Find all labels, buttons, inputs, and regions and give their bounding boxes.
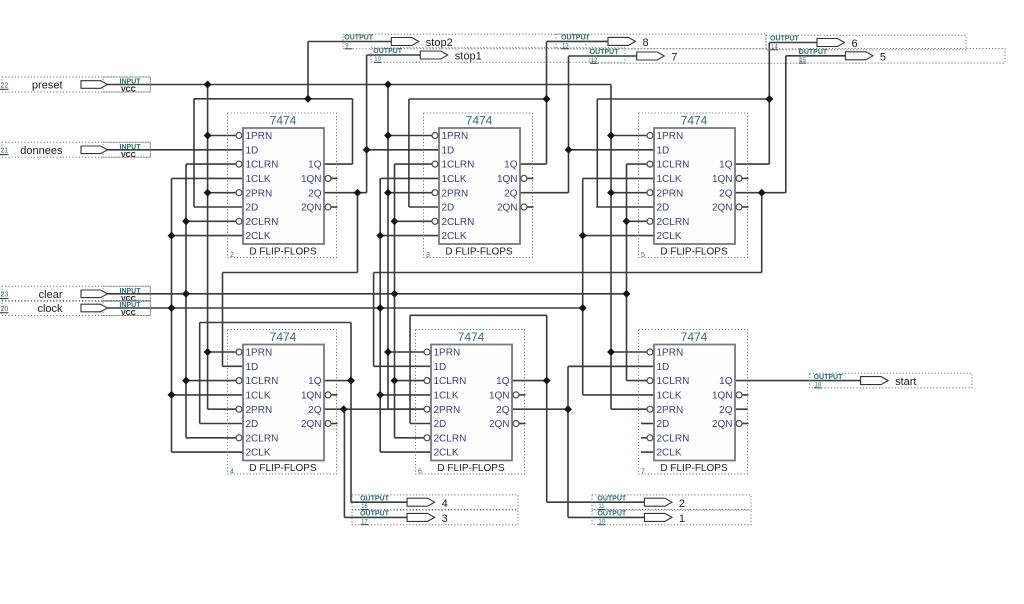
wire 2Q of U2 to 1D of U3 (569, 149, 655, 151)
svg-text:2QN: 2QN (497, 203, 518, 214)
svg-text:INPUT: INPUT (120, 288, 142, 295)
junction preset and U1 column (204, 81, 212, 89)
svg-text:OUTPUT: OUTPUT (561, 35, 591, 42)
wire 2Q stub U6 unconnected (735, 408, 748, 410)
svg-text:D FLIP-FLOPS: D FLIP-FLOPS (249, 247, 317, 258)
chip body U6 (654, 345, 735, 461)
wire stub 2D stub U4 (200, 423, 243, 425)
wire stub 1PRN stub U4 (208, 351, 236, 353)
svg-text:7: 7 (641, 469, 645, 476)
inversion bubble 2QN of U4 (325, 421, 331, 427)
svg-text:2D: 2D (657, 419, 670, 430)
inversion bubble 1CLRN of U3 (647, 161, 653, 167)
input pin symbol donnees (81, 146, 108, 154)
wire output 1 wire (568, 516, 644, 518)
input pin preset inner dotted border (103, 77, 150, 92)
svg-text:1CLRN: 1CLRN (246, 376, 279, 387)
wire stub 1CLRN stub U5 (395, 380, 424, 382)
svg-text:2D: 2D (434, 419, 447, 430)
svg-text:1D: 1D (246, 145, 259, 156)
inversion bubble 1PRN of U2 (432, 133, 438, 139)
svg-text:2CLRN: 2CLRN (657, 433, 690, 444)
stub wire 1QN of U3 (742, 177, 748, 179)
svg-text:2QN: 2QN (489, 419, 510, 430)
wire clock chain left column (171, 178, 173, 452)
junction preset at 1PRN U1 (204, 132, 212, 140)
junction clear at 2CLRN U2 (391, 217, 399, 225)
junction preset at 1PRN U2 (384, 132, 392, 140)
inversion bubble 2QN of U5 (513, 421, 519, 427)
svg-text:2Q: 2Q (308, 405, 322, 416)
wire stub 2CLK stub U4 (172, 451, 244, 453)
chip body U2 (439, 128, 520, 244)
svg-text:2D: 2D (246, 203, 259, 214)
junction 2Q branch U5 (564, 405, 572, 413)
svg-text:OUTPUT: OUTPUT (597, 511, 627, 518)
inversion bubble 1QN of U5 (513, 392, 519, 398)
output pin symbol 2 (644, 498, 672, 506)
inversion bubble 2QN of U6 (736, 421, 742, 427)
wire 2Q drop U3 (761, 193, 763, 273)
svg-text:2Q: 2Q (496, 405, 510, 416)
wire stub 1CLK stub U5 (380, 394, 431, 396)
junction clock and U3 column (579, 304, 587, 312)
svg-text:1PRN: 1PRN (434, 348, 461, 359)
svg-text:2CLRN: 2CLRN (434, 433, 467, 444)
wire stub 2CLRN stub U5 (395, 437, 424, 439)
svg-text:1CLK: 1CLK (657, 391, 682, 402)
svg-text:2D: 2D (657, 203, 670, 214)
svg-text:2: 2 (230, 252, 234, 259)
wire 1Q feedback track U5 (410, 314, 547, 316)
svg-text:D FLIP-FLOPS: D FLIP-FLOPS (249, 463, 317, 474)
svg-text:4: 4 (230, 469, 234, 476)
wire 1Q drop to 2D U1 (193, 99, 195, 207)
wire clock net (108, 307, 583, 309)
junction 2Q branch U1 (354, 189, 362, 197)
svg-text:1QN: 1QN (489, 391, 510, 402)
svg-text:VCC: VCC (121, 310, 136, 317)
wire 2Q riser U3 to output 5 (785, 56, 787, 193)
wire 1Q drop to 2D U4 (199, 323, 201, 424)
junction preset at 1PRN U5 (384, 348, 392, 356)
inversion bubble 2QN of U3 (736, 204, 742, 210)
svg-text:1Q: 1Q (719, 160, 733, 171)
wire 2Q stub U2 (520, 192, 569, 194)
svg-text:7474: 7474 (681, 330, 708, 344)
svg-text:1CLK: 1CLK (246, 391, 271, 402)
wire output 5 wire (786, 55, 846, 57)
stub wire 1QN of U1 (331, 177, 337, 179)
wire stub 1CLRN stub U4 (186, 380, 236, 382)
svg-text:21: 21 (1, 148, 9, 155)
inversion bubble 1PRN of U4 (236, 349, 242, 355)
wire stub 1PRN stub U6 (611, 351, 647, 353)
output pin 8 dotted border (556, 34, 766, 49)
inversion bubble 2PRN of U1 (236, 190, 242, 196)
output pin 7 dotted border (590, 49, 800, 64)
junction output 8 tap on 1Q track U2 (543, 95, 551, 103)
svg-text:D FLIP-FLOPS: D FLIP-FLOPS (660, 463, 728, 474)
wire 2Q riser U1 to stop1 (366, 55, 368, 193)
input pin donnees inner dotted border (103, 142, 150, 157)
svg-text:2CLK: 2CLK (434, 448, 459, 459)
svg-text:INPUT: INPUT (120, 144, 142, 151)
svg-text:2PRN: 2PRN (657, 405, 684, 416)
wire 1Q riser U2 and output 8 tap (546, 41, 548, 164)
svg-text:3: 3 (426, 252, 430, 259)
svg-text:1Q: 1Q (504, 160, 518, 171)
svg-text:7: 7 (671, 52, 677, 64)
svg-text:1Q: 1Q (719, 376, 733, 387)
output pin symbol start (861, 377, 889, 385)
wire 2Q stub U4 (324, 408, 430, 410)
stub wire 1QN of U2 (527, 177, 533, 179)
junction preset at 1PRN U3 (607, 132, 615, 140)
wire stub 1CLK stub U2 (380, 177, 439, 179)
wire clock chain right column (582, 178, 584, 395)
junction 2Q branch U4 (340, 405, 348, 413)
svg-text:5: 5 (641, 252, 645, 259)
wire stub 1CLK stub U3 (583, 177, 654, 179)
output pin symbol 6 (817, 39, 845, 47)
inversion bubble 1CLRN of U2 (432, 161, 438, 167)
svg-text:1PRN: 1PRN (246, 131, 273, 142)
inversion bubble 1CLRN of U1 (236, 161, 242, 167)
wire clear chain middle column (394, 164, 396, 438)
wire stub 2PRN stub U1 (208, 192, 236, 194)
inversion bubble 1PRN of U5 (424, 349, 430, 355)
svg-text:2CLK: 2CLK (246, 231, 271, 242)
inversion bubble 1PRN of U6 (647, 349, 653, 355)
wire 2D stub U6 unconnected (641, 423, 654, 425)
svg-text:OUTPUT: OUTPUT (814, 374, 844, 381)
svg-text:OUTPUT: OUTPUT (373, 48, 403, 55)
inversion bubble 2CLRN of U2 (432, 218, 438, 224)
wire 2CLK stub U6 unconnected (641, 451, 654, 453)
svg-text:stop1: stop1 (455, 51, 482, 63)
svg-text:INPUT: INPUT (120, 79, 142, 86)
svg-text:2PRN: 2PRN (246, 405, 273, 416)
svg-text:1QN: 1QN (712, 174, 733, 185)
chip body U4 (243, 345, 324, 461)
stub wire 2QN of U2 (527, 206, 533, 208)
svg-text:1D: 1D (657, 145, 670, 156)
svg-text:preset: preset (32, 80, 63, 92)
inversion bubble 1QN of U3 (736, 175, 742, 181)
svg-text:1QN: 1QN (301, 391, 322, 402)
svg-text:2PRN: 2PRN (442, 188, 469, 199)
stub wire 2CLRN of U6 unconnected (641, 437, 647, 439)
stub wire 2QN of U5 (519, 423, 525, 425)
wire 1Q stub U4 (324, 380, 351, 382)
svg-text:2: 2 (679, 498, 685, 510)
input pin clock inner dotted border (103, 301, 150, 316)
svg-text:3: 3 (442, 513, 448, 525)
junction preset at 1PRN U6 (607, 348, 615, 356)
junction clear and U1 column (182, 290, 190, 298)
svg-text:6: 6 (418, 469, 422, 476)
svg-text:start: start (895, 376, 916, 388)
svg-text:OUTPUT: OUTPUT (597, 495, 627, 502)
wire stub 1PRN stub U5 (388, 351, 424, 353)
svg-text:1Q: 1Q (496, 376, 510, 387)
svg-text:5: 5 (880, 51, 886, 63)
svg-text:1Q: 1Q (308, 160, 322, 171)
wire stop1 wire (367, 54, 421, 56)
inversion bubble 2PRN of U5 (424, 406, 430, 412)
wire 1Q riser and output 2 drop U5 (546, 315, 548, 502)
svg-text:donnees: donnees (20, 145, 63, 157)
output pin start dotted border (810, 373, 972, 388)
wire stub 2D stub U5 (410, 423, 431, 425)
wire output 6 wire (769, 42, 817, 44)
wire stub 2CLRN stub U1 (186, 220, 236, 222)
svg-text:1: 1 (679, 513, 685, 525)
svg-text:2CLRN: 2CLRN (246, 217, 279, 228)
wire output 2 wire (547, 501, 645, 503)
wire clear net (108, 293, 627, 295)
junction clear at 1CLRN U5 (391, 377, 399, 385)
wire 1Q feedback track U1 (194, 98, 353, 100)
wire clear chain left column (185, 164, 187, 438)
inversion bubble 2QN of U1 (325, 204, 331, 210)
svg-text:1D: 1D (434, 362, 447, 373)
chip body U5 (431, 345, 512, 461)
wire 1Q drop to 2D U3 (596, 99, 598, 207)
svg-text:1CLK: 1CLK (434, 391, 459, 402)
wire stop2 wire (308, 41, 391, 43)
inversion bubble 1QN of U6 (736, 392, 742, 398)
wire 1Q stub U1 (324, 163, 353, 165)
wire 2Q stub U3 (735, 192, 786, 194)
input pin clock dotted border (2, 301, 150, 316)
wire preset chain middle column (387, 85, 389, 410)
svg-text:1CLRN: 1CLRN (246, 160, 279, 171)
junction clock at 2CLK U2 (376, 232, 384, 240)
wire 2Q drop U5 to output 1 (567, 409, 569, 517)
junction clock and U1 column (168, 304, 176, 312)
junction clear at 1CLRN U4 (182, 377, 190, 385)
output pin symbol 8 (608, 37, 636, 45)
junction 1Q branch U4 (347, 377, 355, 385)
inversion bubble 1QN of U1 (325, 175, 331, 181)
inversion bubble 2CLRN of U6 (647, 435, 653, 441)
svg-text:2Q: 2Q (719, 405, 733, 416)
inversion bubble 2PRN of U3 (647, 190, 653, 196)
wire 2Q of U3 track to U5 (374, 272, 762, 274)
wire 1Q feedback track U2 (409, 98, 547, 100)
junction clear and U2 column (391, 290, 399, 298)
wire 2Q of U3 drop to 1D of U5 (373, 273, 375, 367)
wire stub 2PRN stub U4 (208, 408, 236, 410)
svg-text:2Q: 2Q (504, 188, 518, 199)
svg-text:2CLRN: 2CLRN (246, 433, 279, 444)
wire stub 2PRN stub U3 (611, 192, 647, 194)
svg-text:7474: 7474 (270, 114, 297, 128)
svg-text:7474: 7474 (458, 330, 485, 344)
inversion bubble 2QN of U2 (521, 204, 527, 210)
junction clear at 2CLRN U1 (182, 217, 190, 225)
wire 1Q of U6 to start output (735, 380, 861, 382)
input pin preset dotted border (2, 77, 150, 92)
junction clock at 2CLK U3 (579, 232, 587, 240)
7474 D flip-flop chip U1 dotted selection border (228, 113, 337, 258)
wire 2Q riser U5 to 1D of U6 (567, 366, 569, 409)
svg-text:2CLRN: 2CLRN (442, 217, 475, 228)
chip body U1 (243, 128, 324, 244)
svg-text:D FLIP-FLOPS: D FLIP-FLOPS (445, 247, 513, 258)
svg-text:1QN: 1QN (301, 174, 322, 185)
svg-text:1Q: 1Q (308, 376, 322, 387)
svg-text:2D: 2D (246, 419, 259, 430)
svg-text:1CLRN: 1CLRN (442, 160, 475, 171)
junction clock at 2CLK U1 (168, 232, 176, 240)
wire stub 1PRN stub U2 (388, 135, 432, 137)
inversion bubble 1CLRN of U6 (647, 378, 653, 384)
wire stub 2CLRN stub U4 (186, 437, 236, 439)
wire stub 2PRN stub U5 (388, 408, 424, 410)
inversion bubble 2CLRN of U4 (236, 435, 242, 441)
wire stub 1PRN stub U3 (611, 135, 647, 137)
svg-text:D FLIP-FLOPS: D FLIP-FLOPS (660, 247, 728, 258)
wire stub 1D stub U6 (569, 365, 655, 367)
inversion bubble 1PRN of U1 (236, 133, 242, 139)
wire 2Q of U1 drop to 1D of U4 (222, 273, 224, 367)
output pin symbol stop2 (391, 38, 419, 46)
wire 1Q riser U1 (352, 99, 354, 164)
wire stub 2CLRN stub U2 (395, 220, 432, 222)
svg-text:2Q: 2Q (719, 188, 733, 199)
wire stub 2D stub U1 (194, 206, 243, 208)
wire output 7 wire (569, 55, 637, 57)
svg-text:7474: 7474 (270, 330, 297, 344)
wire 1Q stub U3 (735, 163, 769, 165)
wire 1Q drop to 2D U2 (408, 99, 410, 207)
junction stop2 tap on 1Q track U1 (304, 95, 312, 103)
svg-text:2QN: 2QN (712, 419, 733, 430)
inversion bubble 2PRN of U4 (236, 406, 242, 412)
junction preset at 2PRN U1 (204, 189, 212, 197)
wire 1Q stub U2 (520, 163, 547, 165)
output pin stop1 dotted border (371, 48, 625, 63)
wire stub 1CLK stub U4 (172, 394, 244, 396)
wire stub 2PRN stub U6 (611, 408, 647, 410)
junction clock and U2 column (376, 304, 384, 312)
wire output 8 wire (547, 40, 609, 42)
inversion bubble 2PRN of U6 (647, 406, 653, 412)
wire stub 1CLRN stub U2 (395, 163, 432, 165)
input pin clear dotted border (2, 286, 150, 301)
svg-text:clock: clock (37, 303, 63, 315)
svg-text:2CLK: 2CLK (657, 448, 682, 459)
7474 D flip-flop chip U3 dotted selection border (639, 113, 748, 258)
svg-text:2CLK: 2CLK (657, 231, 682, 242)
wire 1D stub U4 (223, 365, 244, 367)
wire 2Q of U5 to 1D of U6 (568, 365, 654, 367)
svg-text:20: 20 (1, 306, 9, 313)
wire 2Q drop U1 (357, 193, 359, 273)
inversion bubble 1CLRN of U5 (424, 378, 430, 384)
svg-text:OUTPUT: OUTPUT (798, 49, 828, 56)
svg-text:1CLRN: 1CLRN (657, 376, 690, 387)
inversion bubble 2CLRN of U3 (647, 218, 653, 224)
wire stub 2D stub U3 (596, 206, 654, 208)
junction clear and U3 column (623, 290, 631, 298)
wire stub 1CLK stub U1 (172, 177, 244, 179)
stub wire 1QN of U6 (742, 394, 748, 396)
wire 1Q stub U5 (512, 380, 547, 382)
svg-text:VCC: VCC (121, 152, 136, 159)
svg-text:1CLK: 1CLK (442, 174, 467, 185)
svg-text:2PRN: 2PRN (246, 188, 273, 199)
junction clear at 2CLRN U3 (623, 217, 631, 225)
svg-text:22: 22 (1, 82, 9, 89)
svg-text:1CLRN: 1CLRN (434, 376, 467, 387)
svg-text:OUTPUT: OUTPUT (344, 35, 374, 42)
wire preset chain right column (610, 85, 612, 410)
output pin 2 dotted border (592, 495, 751, 510)
wire 2Q stub U5 (512, 408, 568, 410)
svg-text:1CLK: 1CLK (657, 174, 682, 185)
svg-text:1PRN: 1PRN (657, 131, 684, 142)
junction clock at 1CLK U4 (168, 391, 176, 399)
junction 2Q to 1D U2 branch (363, 146, 371, 154)
wire 1Q feedback track U3 (597, 98, 769, 100)
input pin donnees dotted border (2, 142, 150, 157)
inversion bubble 1PRN of U3 (647, 133, 653, 139)
wire 1Q riser and output 4 drop U4 (350, 323, 352, 503)
stub wire 1QN of U5 (519, 394, 525, 396)
junction 1Q branch U5 (543, 377, 551, 385)
inversion bubble 2CLRN of U1 (236, 218, 242, 224)
junction preset and U2 column (384, 81, 392, 89)
svg-text:1QN: 1QN (497, 174, 518, 185)
svg-text:2QN: 2QN (301, 203, 322, 214)
output pin 3 dotted border (352, 510, 518, 525)
inversion bubble 2PRN of U2 (432, 190, 438, 196)
wire stub 2CLRN stub U3 (627, 220, 647, 222)
inversion bubble 2CLRN of U5 (424, 435, 430, 441)
wire 1Q riser U3 and output 6 tap (768, 43, 770, 165)
svg-text:OUTPUT: OUTPUT (360, 495, 390, 502)
wire stub 1CLRN stub U6 (627, 380, 647, 382)
output pin symbol stop1 (420, 51, 448, 59)
svg-text:1CLK: 1CLK (246, 174, 271, 185)
wire stub 1CLRN stub U3 (627, 163, 647, 165)
svg-text:1QN: 1QN (712, 391, 733, 402)
wire 2Q of U1 to 1D of U2 (367, 149, 439, 151)
wire 1Q feedback track U4 (200, 322, 351, 324)
svg-text:1CLRN: 1CLRN (657, 160, 690, 171)
7474 D flip-flop chip U6 dotted selection border (639, 330, 748, 475)
svg-text:1PRN: 1PRN (657, 348, 684, 359)
junction clock at 1CLK U5 (376, 391, 384, 399)
stub wire 2QN of U4 (331, 423, 337, 425)
output pin 1 dotted border (592, 510, 751, 525)
inversion bubble 1QN of U4 (325, 392, 331, 398)
input pin symbol clock (81, 304, 108, 312)
svg-text:7474: 7474 (466, 114, 493, 128)
svg-text:D FLIP-FLOPS: D FLIP-FLOPS (437, 463, 505, 474)
output pin 5 dotted border (800, 49, 1005, 64)
stub wire 1QN of U4 (331, 394, 337, 396)
wire stub 2D stub U2 (409, 206, 439, 208)
wire stub 1CLRN stub U1 (186, 163, 236, 165)
wire stub 1CLK stub U6 (583, 394, 654, 396)
svg-text:VCC: VCC (121, 87, 136, 94)
output pin symbol 3 (407, 513, 435, 521)
